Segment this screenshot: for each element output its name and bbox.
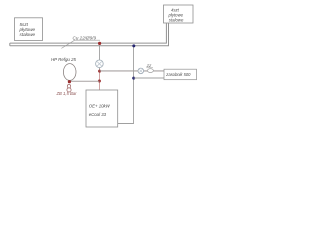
storage tank return line <box>134 77 164 79</box>
expansion vessel ZB (figure-8 symbol) <box>67 85 71 93</box>
leader line for pipe label <box>61 40 100 48</box>
pipe to storage tank top connection <box>100 70 164 72</box>
return pipe lower line (to RG2 riser) <box>10 23 169 46</box>
svg-text:HP Refgu 25: HP Refgu 25 <box>51 57 77 62</box>
svg-text:Cu 22/Ø9/9: Cu 22/Ø9/9 <box>73 35 97 40</box>
valve V2 (circle with cross) on storage line <box>138 68 144 74</box>
node J1 (red) supply pipe tap <box>98 42 101 45</box>
svg-text:stalowe: stalowe <box>169 17 184 22</box>
svg-text:stalowe: stalowe <box>20 32 36 37</box>
svg-text:eCoal 33: eCoal 33 <box>89 112 107 117</box>
node J5 (blue) return pipe tap <box>132 44 135 47</box>
pipe left end cap <box>9 43 11 46</box>
label ZB 1,5 Bar <box>56 91 78 96</box>
node J4 (red) at pump bottom <box>68 80 71 83</box>
riser 2: boiler return vertical with bend into boiler <box>118 46 134 124</box>
node J3 (red) pump branch <box>98 80 101 83</box>
label ZZ <box>146 64 153 68</box>
radiator group box RG1 (5szt płytowe stalowe) <box>15 18 43 41</box>
svg-text:ZB 1,5 Bar: ZB 1,5 Bar <box>56 91 78 96</box>
radiator group box RG2 (4szt płytowe stalowe) <box>164 5 194 23</box>
valve V1 (circle with cross) on riser 1 <box>96 60 104 68</box>
storage tank box (zasobnik 500) <box>164 69 197 80</box>
svg-text:ZZ: ZZ <box>146 64 152 68</box>
label Cu 22/Ø9/9 <box>73 35 97 40</box>
supply pipe upper line (to RG2 riser) <box>10 23 167 43</box>
node J6 (blue) storage return branch <box>132 77 135 80</box>
pump P1 (HP Refgu 25) <box>63 64 76 81</box>
svg-text:OE+ 10kW: OE+ 10kW <box>89 104 111 109</box>
pump feed line <box>69 80 99 82</box>
riser 1: boiler supply vertical <box>99 43 101 90</box>
label HP Refgu 25 <box>51 57 77 62</box>
check valve ZZ (oval) <box>147 69 153 73</box>
svg-text:zasobnik 500: zasobnik 500 <box>165 72 191 77</box>
boiler box (eCoal 33) <box>86 90 118 127</box>
node J2 (red) storage-top branch <box>98 70 101 73</box>
